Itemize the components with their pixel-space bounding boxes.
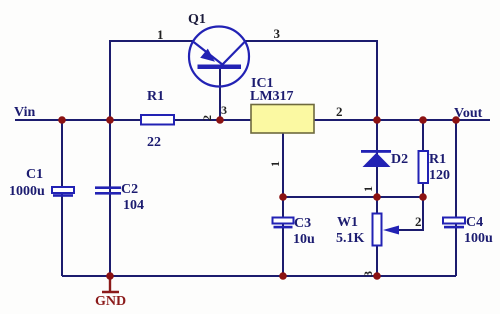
wire Q1 base column to node [219,69,221,120]
svg-text:Vin: Vin [14,105,35,120]
wire C2 column [109,120,111,276]
transistor Q1 collector diagonal [222,42,245,66]
svg-text:10u: 10u [293,232,315,247]
svg-text:2: 2 [415,214,422,229]
svg-text:C1: C1 [26,167,43,182]
wire C4 column [455,120,457,276]
IC U1 LM317 body [251,105,314,134]
wire LM317 output to Vout rail [314,119,490,121]
potentiometer W1 body [373,214,382,246]
svg-text:1: 1 [268,161,282,167]
wire Vin horizontal rail [15,119,251,121]
diode D2 triangle [363,153,391,167]
svg-text:1: 1 [361,186,375,192]
transistor Q1 base bar [198,65,242,70]
svg-text:C2: C2 [121,182,138,197]
wire top rail right segment with drop to output node [245,41,377,120]
svg-text:3: 3 [274,26,281,41]
junction dot ADJ line at D2 bottom [373,193,381,201]
svg-text:GND: GND [95,294,126,309]
junction dot ADJ line at wiper [419,193,427,201]
junction dot output node at R1-120 [419,116,427,124]
svg-text:R1: R1 [147,89,164,104]
junction dot output node at D2 [373,116,381,124]
svg-text:Q1: Q1 [188,12,206,27]
capacitor C4 top plate [443,218,465,224]
svg-text:D2: D2 [391,152,408,167]
ground symbol [102,276,119,292]
wire D2 column [376,120,378,197]
wire R1-120 column [422,120,424,197]
svg-text:1: 1 [157,27,164,42]
capacitor C4 bottom plate [444,226,464,229]
svg-text:100u: 100u [464,231,493,246]
svg-text:5.1K: 5.1K [336,231,365,246]
svg-text:W1: W1 [337,215,358,230]
junction dot ground rail at W1 [373,272,381,280]
svg-text:R1: R1 [429,152,446,167]
svg-text:2: 2 [200,115,214,121]
capacitor C1 top plate [52,187,74,193]
resistor R1 22 body [141,115,174,125]
wire top rail left segment [110,41,193,120]
svg-text:C3: C3 [294,216,311,231]
svg-text:1000u: 1000u [9,184,45,199]
svg-text:2: 2 [336,104,343,119]
svg-text:3: 3 [361,271,375,277]
svg-text:22: 22 [147,135,161,150]
junction dot Vin/C2 [106,116,114,124]
transistor Q1 emitter diagonal [193,42,223,66]
junction dot ADJ line at C3 [279,193,287,201]
wire C1 column [61,120,63,276]
junction dot Vin/C1 [58,116,66,124]
svg-text:LM317: LM317 [250,89,294,104]
transistor Q1 emitter arrow [200,49,215,62]
wire W1 wiper connection [397,197,423,230]
diode D2 cathode bar [361,150,391,153]
capacitor C3 top plate [273,218,294,224]
junction dot ground rail at C3 [279,272,287,280]
junction dot ground rail at GND [106,272,114,280]
svg-text:C4: C4 [466,215,483,230]
resistor R1 120 body [419,151,429,183]
junction dot output node at C4 [452,116,460,124]
capacitor C2 top plate [95,186,121,189]
capacitor C2 bottom plate [95,192,121,195]
junction dot R1/Q1 base/LM317 input node [216,116,224,124]
svg-text:104: 104 [123,198,144,213]
capacitor C1 bottom plate [53,194,73,197]
svg-text:3: 3 [221,103,227,117]
wire bottom ground rail [62,275,456,277]
svg-text:120: 120 [429,168,450,183]
wire ADJ horizontal line [283,196,423,198]
wire LM317 ADJ column [282,133,284,276]
wire W1 potentiometer column [376,197,378,276]
transistor Q1 circle [189,27,249,87]
capacitor C3 bottom plate [274,226,293,229]
potentiometer W1 wiper arrow [383,226,399,235]
